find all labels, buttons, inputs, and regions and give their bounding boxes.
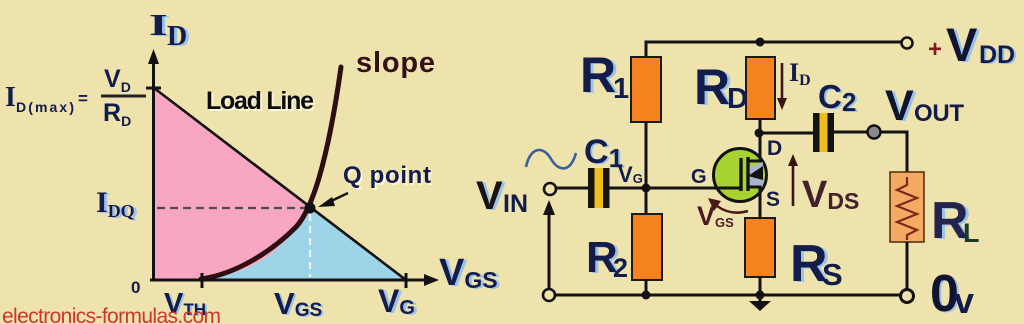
y-axis I_D	[148, 49, 159, 281]
svg-text:D: D	[767, 137, 782, 160]
label +V_DD	[928, 18, 1017, 72]
mosfet channel bar	[746, 157, 749, 191]
dashed line I_DQ to Q point	[157, 207, 305, 209]
svg-text:=: =	[78, 89, 88, 108]
svg-text:S: S	[766, 188, 780, 211]
svg-text:electronics-formulas.com: electronics-formulas.com	[2, 305, 221, 324]
x-axis V_GS	[150, 274, 439, 286]
load line	[154, 88, 406, 280]
mosfet gate bar	[739, 158, 742, 191]
label Q point	[343, 162, 433, 191]
terminal V_OUT	[868, 126, 881, 139]
resistor R2	[632, 214, 662, 280]
svg-text:slope: slope	[356, 47, 435, 79]
label V_G node	[618, 162, 643, 187]
dashed line Q point to V_GS on axis	[309, 214, 311, 277]
svg-text:G: G	[691, 166, 707, 188]
svg-text:L: L	[963, 218, 980, 248]
node R2 ground rail	[642, 291, 651, 300]
transfer curve (slope)	[201, 67, 341, 279]
node top rail to RD junction	[756, 38, 765, 47]
svg-text:R: R	[580, 47, 616, 103]
svg-text:I: I	[149, 7, 168, 42]
arrow V_GS curved	[708, 198, 748, 213]
label V_GS circuit	[697, 201, 734, 231]
node drain junction	[755, 129, 764, 138]
svg-text:Q point: Q point	[343, 162, 431, 189]
arrow V_DS	[788, 154, 798, 206]
svg-text:S: S	[822, 257, 843, 292]
label 0 origin	[131, 278, 140, 297]
label C2	[818, 78, 858, 118]
label I_D current	[789, 58, 811, 89]
label D	[767, 137, 782, 160]
pink saturation region	[154, 89, 310, 279]
label formula I_D(max) = V_D/R_D	[5, 65, 146, 129]
wire C2 to Vout terminal and down to RL	[834, 132, 907, 172]
wire drain node to C2	[759, 132, 814, 135]
svg-text:D(max): D(max)	[16, 99, 74, 115]
resistor RD	[746, 57, 775, 119]
Q point dot	[305, 203, 316, 214]
arrow I_D current	[777, 63, 787, 110]
Q point arrow	[318, 193, 348, 207]
resistor RS	[745, 218, 775, 277]
mosfet source stub	[748, 187, 760, 202]
node gate junction	[642, 184, 651, 193]
svg-text:+: +	[928, 36, 942, 63]
terminal 0v	[901, 290, 914, 303]
mosfet substrate arrow	[748, 166, 763, 180]
mosfet Q1 body	[714, 149, 767, 202]
svg-text:1: 1	[613, 73, 629, 105]
label V_IN	[476, 174, 528, 219]
tick V_TH on x-axis	[201, 273, 204, 288]
label slope	[356, 47, 435, 79]
label V_OUT	[885, 82, 964, 131]
wire R1 to gate node	[645, 122, 648, 188]
svg-text:v: v	[954, 280, 974, 321]
capacitor C2	[813, 113, 834, 152]
svg-text:OUT: OUT	[914, 100, 964, 127]
label V_G (x-axis point)	[378, 283, 418, 320]
wire top rail +VDD	[646, 42, 901, 57]
label V_GS (operating point)	[274, 286, 324, 322]
label I_DQ	[96, 186, 138, 222]
svg-text:R: R	[694, 59, 730, 115]
terminal V_IN	[544, 183, 556, 195]
svg-text:V: V	[885, 82, 914, 130]
svg-text:IN: IN	[503, 190, 528, 218]
svg-text:DD: DD	[979, 41, 1015, 69]
terminal bottom left	[543, 289, 555, 301]
svg-text:0: 0	[131, 278, 140, 297]
label V_DS	[802, 174, 859, 216]
svg-text:V: V	[946, 18, 978, 71]
label 0v	[930, 265, 974, 324]
label C1	[584, 133, 625, 174]
label S	[766, 188, 780, 211]
label RL	[931, 192, 980, 251]
wire R2 to ground rail	[645, 280, 648, 295]
mosfet drain stub	[748, 148, 760, 161]
svg-text:D: D	[167, 21, 187, 52]
label R2	[586, 233, 628, 283]
label G	[691, 166, 707, 188]
wire gate node to R2	[645, 188, 648, 214]
wire source to RS	[759, 202, 762, 218]
ground	[749, 291, 771, 312]
label RS	[790, 235, 843, 294]
label V_GS (x-axis name)	[439, 252, 501, 295]
label R1	[580, 47, 629, 105]
tick I_D(max) on y-axis	[146, 87, 161, 90]
mosfet channel shade	[750, 162, 763, 188]
arrow V_IN input	[543, 200, 555, 289]
sine wave source symbol	[526, 150, 576, 168]
label I_D (y-axis)	[149, 7, 190, 53]
svg-text:Load Line: Load Line	[206, 87, 314, 115]
terminal +VDD	[902, 38, 913, 49]
capacitor C1	[588, 168, 610, 208]
wire ground rail	[552, 294, 903, 297]
resistor RL	[890, 172, 924, 242]
label RD	[694, 59, 748, 116]
resistor R1	[631, 57, 661, 122]
svg-text:I: I	[5, 82, 16, 113]
svg-text:V: V	[476, 174, 503, 218]
wire Vin terminal to C1	[556, 187, 588, 190]
wire RL to bottom terminal	[906, 242, 909, 290]
tick V_G on x-axis	[405, 273, 408, 288]
wire C1 to gate	[609, 187, 740, 190]
svg-text:2: 2	[613, 253, 628, 283]
wire RS to ground rail	[759, 277, 762, 295]
watermark electronics-formulas.com	[2, 305, 221, 324]
label V_TH	[164, 288, 208, 321]
wire RD to drain node	[759, 119, 762, 160]
svg-text:D: D	[727, 83, 748, 115]
blue triode region	[204, 208, 405, 279]
label Load Line	[206, 87, 316, 117]
